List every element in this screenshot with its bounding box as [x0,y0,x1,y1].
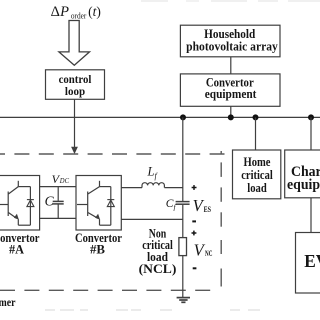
ground [177,298,190,303]
wire PV array to convertor equipment [230,57,232,74]
DC link top rail [40,186,76,188]
diode D_B [107,200,114,207]
capacitor C_f [176,201,190,203]
wire bus to home critical load [255,117,257,150]
wire inductor to ES node [164,187,182,189]
node line bus to C_f [182,117,184,201]
svg-text:critical: critical [241,168,273,182]
plus sign V_ES [192,185,197,190]
svg-text:P: P [59,4,69,20]
wire convertor B bottom to node [121,218,183,220]
svg-text:photovoltaic array: photovoltaic array [186,39,278,54]
convertor #A box (clipped at left) [0,176,40,231]
bus junction node 2 [228,114,234,120]
svg-text:loop: loop [65,84,85,98]
minus sign V_NC [193,267,197,269]
cropped caption remnant bottom edge [45,309,260,311]
node line C_f to resistor [182,205,184,238]
svg-text:load: load [247,181,267,195]
hollow arrow power order input [59,21,90,66]
capacitor C [57,187,59,201]
svg-text:(t): (t) [88,4,101,19]
plus sign V_NC [192,231,197,236]
resistor V_NC load [179,238,187,256]
control loop box [46,70,105,100]
svg-text:Home: Home [244,155,271,169]
svg-text:(NCL): (NCL) [139,262,177,276]
IGBT Q_A [0,181,30,225]
svg-text:equipment: equipment [287,177,320,193]
svg-text:mer: mer [0,295,16,309]
svg-text:EV: EV [304,251,320,271]
svg-text:equipment: equipment [205,87,257,101]
svg-text:order: order [71,12,87,21]
bus junction node 3 [253,114,259,120]
cropped text remnant top edge [141,0,320,2]
minus sign V_ES [192,220,196,222]
DC link bottom rail [40,217,76,219]
wire convertor equipment to bus [230,106,232,117]
wire control loop to microgrid with arrowhead [74,99,76,147]
home critical load box [233,150,281,199]
wire charging equipment to EV [310,198,312,233]
svg-text:ES: ES [204,204,212,214]
svg-text:NC: NC [205,248,212,258]
svg-text:Δ: Δ [51,4,60,20]
bus junction node 4 [308,114,314,120]
DC bus line [0,116,320,118]
inductor L_f [142,183,164,188]
dashed microgrid boundary right [220,151,222,287]
node line resistor to ground [182,256,184,298]
wire convertor B to inductor [121,187,142,189]
dashed microgrid boundary top [0,153,225,155]
IGBT Q_B [77,181,111,225]
svg-text:DC: DC [59,177,69,185]
wire bus to charging equipment [310,117,312,150]
dashed microgrid boundary bottom [0,289,214,291]
bus junction node 1 [180,114,186,120]
household photovoltaic array box [180,25,280,57]
svg-text:#A: #A [9,243,24,257]
svg-text:C: C [45,194,55,209]
charging equipment box (clipped at right) [285,150,320,198]
diode D_A [27,200,34,207]
convertor equipment box [180,74,280,106]
EV box (clipped at right) [296,233,320,294]
svg-text:#B: #B [90,243,105,257]
convertor #B box [76,176,121,231]
